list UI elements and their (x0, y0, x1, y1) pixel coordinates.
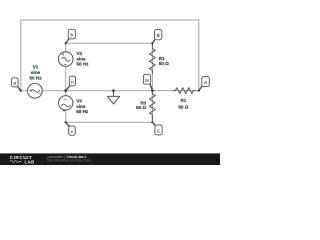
wire: b phase horizontal (66, 42, 153, 44)
svg-text:http://circuitlab.com/c/pq7hzw: http://circuitlab.com/c/pq7hzw (48, 159, 92, 163)
wire: N to R1 to A corner (152, 90, 198, 92)
node flag n (66, 76, 76, 91)
svg-text:V3: V3 (76, 99, 82, 104)
svg-text:V1: V1 (33, 65, 39, 70)
voltage source V2 (58, 52, 73, 67)
CircuitLab logo (10, 155, 35, 164)
node flag B (151, 30, 162, 45)
svg-text:sine: sine (76, 56, 86, 61)
voltage source V3 (58, 96, 72, 112)
node flag C (151, 121, 162, 135)
wire: neutral horizontal a-V1-n-gnd-N (21, 90, 153, 92)
label V2 (76, 51, 89, 67)
svg-text:sine: sine (31, 70, 41, 75)
wire: V2-V3 vertical bus (65, 43, 67, 122)
node flag A (198, 77, 210, 92)
svg-text:A: A (204, 80, 207, 85)
svg-text:B: B (157, 33, 160, 38)
svg-text:50 Ω: 50 Ω (178, 104, 188, 109)
wire: R2-R3 vertical bus (151, 43, 153, 122)
resistor R2 (149, 45, 155, 74)
svg-text:R1: R1 (180, 98, 186, 103)
junction node N (151, 89, 154, 92)
svg-text:50 Ω: 50 Ω (136, 105, 146, 110)
wire: outer loop a to A (left vertical, top, right vertical) (21, 20, 199, 91)
label R3 (136, 100, 147, 110)
node flag N (143, 74, 152, 90)
svg-text:N: N (145, 78, 148, 83)
resistor R1 (173, 88, 195, 94)
label R2 (159, 56, 169, 66)
wire: bottom c phase horizontal (66, 121, 153, 123)
voltage source V1 (28, 83, 43, 98)
ground (108, 91, 120, 104)
label R1 (178, 98, 188, 109)
node flag a (12, 78, 22, 92)
svg-text:50 Hz: 50 Hz (76, 62, 89, 67)
node flag b (65, 29, 76, 44)
label V1 (29, 65, 42, 81)
junction node n (64, 89, 67, 92)
svg-text:50 Hz: 50 Hz (76, 109, 89, 114)
resistor R3 (149, 92, 155, 121)
svg-text:V2: V2 (76, 51, 82, 56)
svg-text:LAB: LAB (25, 159, 35, 164)
svg-text:50 Hz: 50 Hz (29, 75, 42, 80)
label V3 (76, 99, 89, 114)
footer bar (0, 153, 220, 165)
svg-text:50 Ω: 50 Ω (159, 61, 169, 66)
node flag c (65, 121, 76, 135)
